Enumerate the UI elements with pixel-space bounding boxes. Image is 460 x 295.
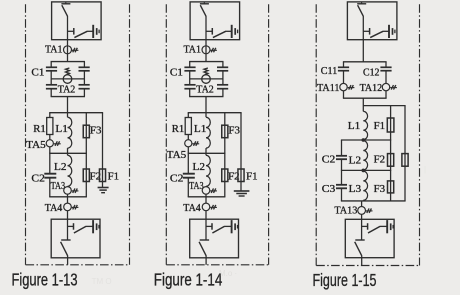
wire [67,211,69,220]
breaker QF top (fig 1-14) enclosure box [190,2,240,40]
wire [205,194,207,197]
wire [102,182,104,188]
inductor L2 [206,155,210,186]
earthing/disconnector box bottom (fig 1-14) lower switch fixed contact tick [200,239,209,241]
svg-text:F1: F1 [246,170,258,182]
svg-text:TM O: TM O [90,277,112,286]
svg-text:TA4: TA4 [183,202,201,214]
node bottom bus [188,196,226,198]
svg-text:M.o ·: M.o · [219,269,237,278]
ground [234,191,250,196]
breaker QF top (fig 1-14) earth electrode bars [232,25,238,38]
wire [49,153,51,173]
inductor L1 [206,117,210,148]
wire [361,256,363,266]
svg-text:F1: F1 [374,120,386,132]
node junction bus [188,152,226,154]
transformer TA2 lower left capacitor [184,85,195,97]
transformer TA5 [46,140,61,147]
wire [385,91,387,98]
wire [187,135,189,140]
wire [67,197,69,203]
svg-text:F2: F2 [374,154,386,166]
svg-text:C2: C2 [170,173,184,185]
surge arrester gap circle [63,75,72,84]
wire branch to fuses [363,105,405,107]
wire [341,140,343,156]
earthing/disconnector box bottom (fig 1-15) earthing switch branch wire [362,225,368,227]
wire [341,188,343,201]
wire [362,199,364,202]
surge arrester zigzag [204,68,208,75]
node junction dot [362,138,366,142]
wire [240,182,242,192]
earthing/disconnector box bottom (fig 1-14) earthing switch blade [212,226,231,233]
wire [205,40,207,62]
wire [67,219,69,240]
wire [49,135,51,140]
dash-dot enclosure fig 1-13 right edge [129,4,131,265]
wire [189,71,191,85]
earthing/disconnector box bottom (fig 1-13) earth electrode bars [93,220,99,233]
transformer TA11 [340,83,355,90]
fuse F2 [388,154,394,167]
wire [240,113,242,182]
earthing/disconnector box bottom (fig 1-13) earthing switch branch wire [68,225,74,227]
svg-text:TA2: TA2 [196,84,214,96]
svg-text:R1: R1 [172,123,185,135]
svg-text:C11: C11 [321,65,338,77]
fuse F2 [83,169,89,182]
svg-text:TA1: TA1 [45,44,63,56]
svg-text:R1: R1 [33,123,46,135]
svg-text:F3: F3 [374,183,386,195]
svg-text:C3: C3 [322,183,336,195]
svg-text:TA4: TA4 [45,202,63,214]
wire [361,219,363,240]
svg-text:TA3: TA3 [189,180,204,192]
breaker QF top (fig 1-15) switch blade [358,5,364,16]
breaker QF top (fig 1-13) earthing switch branch wire [68,30,74,32]
transformer TA2 lower right capacitor [79,85,90,97]
breaker QF top (fig 1-14) switch fixed contact tick [200,2,209,4]
capacitor C1 upper left [46,62,57,71]
capacitor C2 [336,156,347,159]
breaker QF top (fig 1-15) earth electrode bars [389,25,395,38]
earthing/disconnector box bottom (fig 1-14) earthing switch branch wire [206,225,212,227]
dash-dot enclosure fig 1-13 bottom edge [26,264,130,266]
surge arrester zigzag [66,68,70,75]
svg-text:C1: C1 [170,66,183,78]
node junction dot [362,169,366,173]
wire [67,97,69,113]
earthing/disconnector box bottom (fig 1-15) earth electrode bars [387,220,393,233]
wire [361,201,363,207]
dash-dot enclosure fig 1-13 left edge [25,4,27,265]
svg-text:TA1: TA1 [184,44,202,56]
capacitor C3 [336,185,347,189]
capacitor C11 [338,62,349,84]
fuse F3 [388,181,394,193]
wire [85,113,87,197]
fuse (right branch) [402,154,408,167]
wire [67,113,69,118]
wire [205,113,207,118]
transformer TA1 [202,46,217,54]
capacitor C12 [380,62,391,84]
wire [341,170,343,184]
svg-text:L2: L2 [349,154,362,166]
svg-text:TA5: TA5 [167,149,187,161]
wire [362,98,364,111]
fuse F1 [238,169,244,182]
svg-text:L1: L1 [348,120,361,132]
svg-text:TA11: TA11 [317,82,340,94]
wire [205,219,207,240]
breaker QF top (fig 1-15) enclosure box [347,2,397,40]
wire [205,97,207,113]
surge arrester gap circle [202,75,211,84]
wire [205,148,207,155]
capacitor C1 upper right [217,62,228,71]
capacitor C2 [44,174,56,178]
transformer TA2 lower right capacitor [217,85,228,97]
wire [49,147,51,153]
node top bus [51,61,85,63]
earthing/disconnector box bottom (fig 1-15) earthing switch blade [368,226,387,233]
transformer TA4 [202,203,217,211]
wire [50,71,52,85]
node top bus [189,61,223,63]
earthing/disconnector box bottom (fig 1-14) earthing switch contact tick [211,223,213,230]
breaker QF top (fig 1-15) earthing switch contact tick [369,28,371,35]
resistor R1 [185,118,191,135]
wire [67,148,69,155]
wire [67,256,69,265]
wire [187,147,189,153]
earthing/disconnector box bottom (fig 1-13) lower switch fixed contact tick [61,239,70,241]
dash-dot enclosure fig 1-14 right edge [268,4,270,265]
wire [390,106,392,201]
node junction bus [49,152,87,154]
earthing/disconnector box bottom (fig 1-15) lower switch blade [355,242,362,256]
breaker QF top (fig 1-15) earthing switch branch wire [363,30,369,32]
svg-text:TA12: TA12 [360,82,383,94]
wire [83,71,85,85]
earthing/disconnector box bottom (fig 1-14) enclosure box [190,219,239,258]
fuse F2 [222,169,228,182]
fuse F3 [83,125,89,138]
svg-text:L2: L2 [54,161,67,173]
breaker QF top (fig 1-13) earthing switch contact tick [73,28,75,35]
transformer TA2 lower left capacitor [46,85,57,97]
svg-text:F3: F3 [228,125,240,137]
svg-text:TA5: TA5 [26,139,46,151]
breaker QF top (fig 1-14) earthing switch blade [213,31,231,37]
breaker QF top (fig 1-15) switch fixed contact tick [357,2,366,4]
node bottom bus [49,196,87,198]
inductor L2 [68,155,72,186]
svg-text:|: | [424,165,426,174]
wire [102,113,104,182]
inductor L2 [363,141,367,170]
svg-text:Figure 1-14: Figure 1-14 [154,270,223,290]
earthing/disconnector box bottom (fig 1-13) lower switch blade [61,242,68,256]
wire junction bus upper [341,139,391,141]
fuse F3 [222,125,228,138]
transformer TA12 [382,83,397,90]
wire [205,211,207,220]
svg-text:L2: L2 [193,161,206,173]
capacitor C2 [183,174,195,178]
earthing/disconnector box bottom (fig 1-15) enclosure box [345,219,394,257]
svg-text:F1: F1 [108,170,120,182]
node bottom bus [51,96,85,98]
wire [205,256,207,265]
wire [404,106,406,201]
breaker QF top (fig 1-13) earthing switch blade [74,31,92,37]
wire [205,16,207,40]
breaker QF top (fig 1-13) switch blade [62,5,68,16]
wire [187,153,189,173]
resistor R1 [47,118,53,135]
wire [361,214,363,219]
capacitor C1 upper left [184,62,195,71]
dash-dot enclosure fig 1-14 left edge [165,4,167,265]
dash-dot enclosure fig 1-15 bottom edge [316,265,419,267]
inductor L3 [363,171,367,200]
breaker QF top (fig 1-14) earthing switch branch wire [206,30,212,32]
transformer TA13 [358,207,373,215]
wire [341,159,343,170]
breaker QF top (fig 1-13) switch fixed contact tick [61,2,70,4]
inductor L1 [68,117,72,148]
svg-text:C12: C12 [363,67,380,79]
earthing/disconnector box bottom (fig 1-13) enclosure box [51,219,100,258]
svg-text:L1: L1 [194,123,207,135]
svg-text:TA2: TA2 [58,84,76,96]
node bottom bus [189,96,223,98]
breaker QF top (fig 1-15) earthing switch blade [370,31,388,37]
earthing/disconnector box bottom (fig 1-13) earthing switch blade [74,226,93,233]
wire [362,16,364,40]
wire [222,71,224,85]
wire [67,194,69,197]
svg-text:Figure 1-13: Figure 1-13 [12,270,78,290]
wire [49,113,51,118]
capacitor C1 upper right [79,62,90,71]
earthing/disconnector box bottom (fig 1-14) earth electrode bars [232,220,238,233]
node bottom bus [341,200,406,202]
node bottom bus of capacitor section [343,97,387,99]
svg-text:TA3: TA3 [51,180,66,192]
dash-dot enclosure fig 1-15 right edge [419,4,421,265]
wire [67,16,69,40]
faint bleed-through marks [90,165,426,286]
wire junction bus lower [341,169,391,171]
wire middle bus [190,78,223,80]
svg-text:C2: C2 [322,154,336,166]
svg-text:C1: C1 [31,66,44,78]
wire [343,91,345,98]
dash-dot enclosure fig 1-15 left edge [315,4,317,265]
breaker QF top (fig 1-13) enclosure box [52,2,102,40]
wire [187,178,189,197]
node LC top bus [49,112,103,114]
svg-text:L1: L1 [55,123,68,135]
wire [224,113,226,197]
wire [187,113,189,118]
earthing/disconnector box bottom (fig 1-14) lower switch blade [199,242,206,256]
transformer TA4 [64,203,79,211]
transformer TA3 [202,187,217,195]
node LC top bus [188,112,242,114]
wire [49,178,51,197]
earthing/disconnector box bottom (fig 1-15) lower switch fixed contact tick [355,239,364,241]
svg-text:Figure 1-15: Figure 1-15 [313,270,377,290]
svg-text:C2: C2 [31,173,45,185]
breaker QF top (fig 1-14) earthing switch contact tick [211,28,213,35]
svg-text:L3: L3 [349,183,362,195]
wire [362,40,364,62]
transformer TA5 [185,140,200,147]
svg-text:F3: F3 [90,125,102,137]
fuse F1 [387,118,394,132]
fuse F1 [99,169,105,182]
earthing/disconnector box bottom (fig 1-13) earthing switch contact tick [73,223,75,230]
transformer TA3 [64,187,79,195]
transformer TA1 [64,46,79,54]
wire [205,197,207,203]
wire [67,40,69,62]
node top bus [343,61,387,63]
breaker QF top (fig 1-14) switch blade [200,5,206,16]
wire middle bus [51,78,84,80]
ground [98,188,109,193]
earthing/disconnector box bottom (fig 1-15) earthing switch contact tick [367,223,369,230]
dash-dot enclosure fig 1-14 bottom edge [166,264,268,266]
svg-text:TA13: TA13 [334,205,357,217]
inductor L1 [363,111,367,139]
breaker QF top (fig 1-13) earth electrode bars [93,25,99,38]
